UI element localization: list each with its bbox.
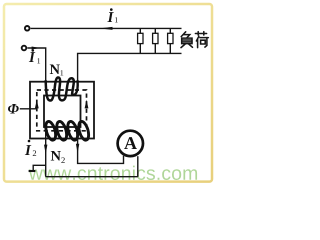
svg-text:I: I	[107, 10, 115, 26]
svg-text:1: 1	[60, 68, 64, 77]
svg-text:1: 1	[37, 57, 41, 66]
svg-text:2: 2	[61, 155, 65, 165]
svg-text:2: 2	[32, 148, 36, 158]
svg-text:Φ: Φ	[8, 101, 20, 117]
svg-text:I: I	[28, 50, 36, 66]
svg-text:1: 1	[114, 16, 118, 25]
svg-text:A: A	[124, 133, 137, 153]
svg-text:I: I	[24, 143, 32, 159]
svg-text:N: N	[51, 149, 62, 165]
